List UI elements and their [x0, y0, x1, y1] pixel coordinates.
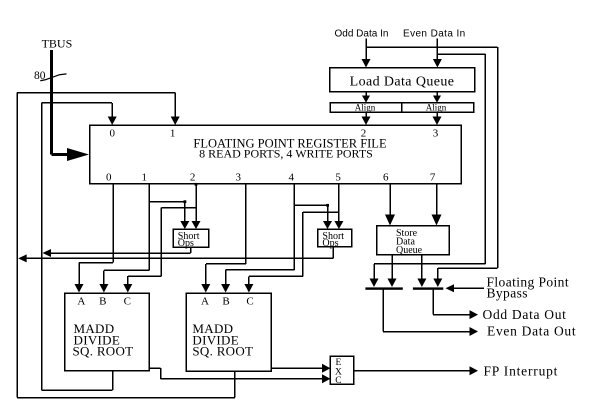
svg-text:Even Data Out: Even Data Out: [487, 324, 576, 339]
wire LDQ to Align left: [365, 92, 367, 98]
svg-text:8 READ PORTS, 4 WRITE PORTS: 8 READ PORTS, 4 WRITE PORTS: [199, 147, 373, 161]
svg-text:B: B: [99, 296, 106, 308]
arrowhead ShortOps2 right input: [334, 221, 343, 229]
wire read port 2 jog to MADD1 C: [128, 208, 196, 286]
wire read port 7 to store queue: [436, 184, 438, 216]
wire left inner feedback vertical: [41, 103, 43, 390]
wire rail1 result bus: [49, 252, 191, 254]
arrowhead write port 0: [108, 117, 117, 126]
arrowhead LDQ into Align right: [433, 96, 441, 103]
svg-text:5: 5: [335, 172, 341, 184]
wire TBUS vertical bus: [52, 50, 70, 155]
box ShortOps1: [173, 229, 208, 247]
svg-text:C: C: [124, 296, 131, 308]
svg-text:1: 1: [142, 172, 148, 184]
wire bar2 to Odd Data Out: [433, 289, 470, 315]
wire feedback to write port 1 top rail: [17, 92, 175, 94]
arrowhead rail1 into feedback vertical: [43, 249, 52, 257]
svg-text:2: 2: [190, 172, 196, 184]
wire Even Data In drop: [436, 39, 438, 63]
wire bar1 to Even Data Out: [383, 289, 470, 332]
svg-text:A: A: [201, 296, 209, 308]
svg-text:6: 6: [383, 172, 389, 184]
arrowhead LDQ into Align left: [362, 96, 370, 103]
arrowhead port 6 into store queue: [385, 215, 395, 226]
junction port2 at regfile bottom: [195, 183, 198, 186]
wire MADD2 to EXC: [271, 367, 323, 369]
wire bottom loop from MADD2: [17, 371, 235, 398]
wire read port 2 to ShortOps1 right: [195, 184, 197, 224]
box Store Data Queue: [377, 226, 450, 255]
svg-text:SQ. ROOT: SQ. ROOT: [73, 344, 134, 359]
wire Odd Data In drop: [365, 39, 367, 63]
wire EXC to FP Interrupt: [354, 370, 470, 372]
arrowhead Even Data In into LDQ: [433, 59, 442, 68]
arrowhead MADD2 B input: [221, 284, 230, 293]
svg-text:SQ. ROOT: SQ. ROOT: [192, 344, 253, 359]
svg-text:Odd Data Out: Odd Data Out: [483, 307, 567, 322]
junction shortops2 left feed corner: [326, 204, 329, 207]
arrowhead ShortOps2 left input: [323, 221, 332, 229]
arrowhead ShortOps1 left input: [180, 221, 189, 229]
arrowhead Align into write 3: [433, 117, 442, 126]
wire read port 1 to MADD1 B: [104, 184, 149, 285]
wire read port 5 jog to MADD2 C: [249, 212, 339, 285]
arrowhead EXC input lower: [322, 374, 330, 383]
box ShortOps2: [318, 229, 352, 247]
arrowhead Odd Data Out: [470, 310, 479, 319]
wire read port 0 to MADD1 A: [79, 184, 113, 285]
wire left outer feedback vertical: [16, 93, 18, 398]
arrowhead write port 1: [171, 117, 180, 126]
svg-text:Align: Align: [426, 103, 447, 113]
svg-text:Bypass: Bypass: [487, 286, 528, 301]
svg-text:B: B: [222, 296, 229, 308]
arrowhead ShortOps1 right input: [192, 221, 201, 229]
svg-text:Queue: Queue: [396, 245, 423, 256]
arrowhead store queue out left onto bar1: [388, 279, 397, 288]
box MADD1: [65, 293, 150, 371]
svg-text:A: A: [77, 296, 85, 308]
bus width slash on TBUS: [40, 74, 66, 81]
wire ShortOps1 output to rail1: [190, 247, 192, 253]
arrowhead EXC input upper: [322, 364, 330, 373]
arrowhead store queue out right onto bar2: [417, 279, 426, 288]
svg-text:Ops: Ops: [178, 238, 194, 249]
svg-text:4: 4: [289, 172, 295, 184]
box EXC: [330, 356, 353, 384]
svg-text:C: C: [246, 296, 253, 308]
wire read port 4 to MADD2 B: [226, 184, 295, 285]
arrowhead port 7 into store queue: [432, 215, 442, 226]
arrowhead MADD1 A input: [75, 284, 84, 293]
wire LDQ to Align right: [436, 92, 438, 98]
arrowhead Align into write 2: [362, 117, 371, 126]
wire write port 1 drop: [174, 93, 176, 120]
wire Odd Data In bypass branch: [366, 47, 498, 279]
svg-text:3: 3: [433, 128, 439, 140]
bus bar1: [365, 287, 402, 289]
arrowhead FP Interrupt: [470, 366, 479, 375]
svg-text:Odd Data In: Odd Data In: [335, 29, 389, 40]
svg-text:7: 7: [430, 172, 436, 184]
arrowhead MADD1 C input: [123, 284, 132, 293]
svg-text:80: 80: [34, 70, 46, 82]
wire ShortOps2 output to rail2: [332, 247, 334, 259]
svg-text:1: 1: [170, 128, 176, 140]
arrowhead odd bypass onto bar2: [433, 279, 442, 288]
svg-text:0: 0: [109, 128, 115, 140]
box Load Data Queue: [330, 68, 475, 92]
wire read port 6 to store queue: [389, 184, 391, 216]
svg-text:FP Interrupt: FP Interrupt: [484, 363, 559, 378]
arrowhead Even Data Out: [470, 327, 479, 336]
wire rail2 result bus: [25, 257, 333, 259]
arrowhead MADD2 C input: [244, 284, 253, 293]
wire Floating Point Bypass into bar2: [453, 287, 484, 289]
box Align row: [330, 103, 473, 113]
bus bar2: [413, 287, 443, 289]
box MADD2: [186, 293, 271, 371]
arrowhead rail2 into feedback vertical: [18, 254, 27, 262]
arrowhead MADD2 A input: [201, 284, 210, 293]
svg-text:Align: Align: [355, 103, 376, 113]
arrowhead Odd Data In into LDQ: [362, 59, 371, 68]
wire feedback to write port 0 top rail: [42, 102, 113, 104]
arrowhead FP bypass into bar2: [446, 284, 455, 292]
svg-text:TBUS: TBUS: [42, 37, 73, 51]
arrowhead even bypass onto bar1: [370, 279, 379, 288]
wire bottom loop from MADD1: [42, 371, 113, 391]
junction shortops1 left feed corner: [184, 200, 187, 203]
wire read port 4 branch to ShortOps2 left: [294, 205, 327, 224]
svg-text:0: 0: [106, 172, 112, 184]
svg-text:Ops: Ops: [322, 238, 338, 249]
svg-text:Even Data In: Even Data In: [403, 29, 466, 40]
wire read port 5 to ShortOps2 right: [338, 184, 340, 224]
wire write port 0 drop: [111, 103, 113, 120]
wire store queue output left: [391, 255, 393, 279]
svg-text:Load Data Queue: Load Data Queue: [350, 75, 455, 90]
svg-text:3: 3: [236, 172, 242, 184]
wire Align to regfile write 2: [365, 112, 367, 119]
wire read port 3 to MADD2 A: [206, 184, 246, 285]
box register file: [90, 125, 462, 184]
arrowhead TBUS into register file: [67, 148, 89, 161]
wire store queue output right: [421, 255, 423, 279]
arrowhead MADD1 B input: [99, 284, 108, 293]
wire Even Data In bypass branch: [374, 54, 485, 279]
wire read port 1 branch to ShortOps1 left: [149, 202, 185, 224]
box Align divider: [401, 103, 403, 113]
wire MADD1 to EXC: [149, 368, 323, 379]
wire Align to regfile write 3: [436, 112, 438, 119]
svg-text:C: C: [335, 376, 341, 386]
